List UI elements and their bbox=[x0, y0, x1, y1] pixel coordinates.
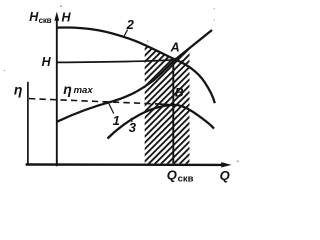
svg-text:1: 1 bbox=[113, 113, 120, 128]
svg-text:H: H bbox=[62, 10, 72, 24]
svg-text:Q: Q bbox=[220, 168, 230, 183]
svg-text:скв: скв bbox=[39, 16, 52, 25]
svg-text:A: A bbox=[170, 41, 180, 55]
svg-text:H: H bbox=[42, 55, 52, 69]
svg-text:η: η bbox=[14, 82, 23, 98]
svg-text:В: В bbox=[175, 86, 184, 100]
svg-text:3: 3 bbox=[129, 120, 137, 135]
svg-text:max: max bbox=[74, 85, 94, 96]
svg-text:Q: Q bbox=[167, 168, 177, 183]
svg-text:скв: скв bbox=[178, 174, 194, 185]
svg-text:2: 2 bbox=[126, 17, 135, 32]
svg-text:η: η bbox=[63, 81, 72, 97]
